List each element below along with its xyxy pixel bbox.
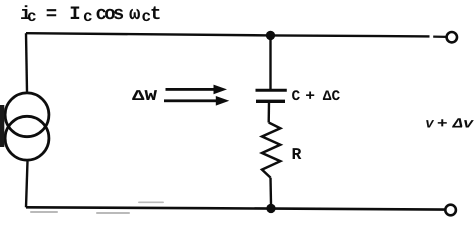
capacitor C+dC: top plate <box>256 89 287 92</box>
wire: top rail <box>26 33 430 36</box>
resistor R (zigzag) <box>262 123 280 178</box>
wire: left vertical drop from top rail to current source <box>26 33 27 91</box>
svg-text:t: t <box>150 3 161 25</box>
svg-text:c: c <box>83 8 93 26</box>
wire: left vertical from current source to bottom rail <box>26 161 28 207</box>
wire: bottom rail <box>26 207 445 209</box>
scan artifact: dark streak at left edge <box>0 105 4 147</box>
node: top junction <box>266 31 275 40</box>
scan artifact: smudges under bottom rail <box>30 202 164 215</box>
svg-text:ΔW: ΔW <box>132 88 157 105</box>
svg-text:Δv: Δv <box>452 117 474 133</box>
svg-text:=: = <box>46 3 57 25</box>
wire: resistor to bottom node <box>269 178 272 204</box>
node: bottom junction <box>266 204 275 213</box>
wire: node to capacitor top plate <box>269 35 271 89</box>
svg-text:C: C <box>292 89 301 105</box>
label: ic = Ic cos wct (source current formula) <box>20 3 161 26</box>
terminal: bottom right open circle <box>445 205 456 216</box>
current source I1 (two overlapping circles) <box>5 93 49 160</box>
svg-text:+: + <box>437 117 448 133</box>
arrow: upper pump arrow <box>166 85 228 95</box>
label: C + dC <box>292 89 341 105</box>
svg-text:ω: ω <box>129 3 140 25</box>
svg-text:R: R <box>292 145 302 164</box>
capacitor C+dC: bottom plate <box>256 100 285 103</box>
svg-text:ΔC: ΔC <box>323 89 341 105</box>
svg-text:c: c <box>27 8 37 26</box>
svg-text:I: I <box>69 3 80 25</box>
wire: top rail faded segment to terminal <box>433 35 446 38</box>
svg-text:cos: cos <box>96 3 124 25</box>
svg-text:v: v <box>425 117 434 133</box>
svg-text:+: + <box>305 89 315 105</box>
terminal: top right open circle <box>447 32 457 42</box>
label: v + dv (output voltage) <box>425 117 474 133</box>
wire: capacitor bottom plate to resistor <box>268 102 271 123</box>
arrow: lower pump arrow <box>164 96 229 106</box>
